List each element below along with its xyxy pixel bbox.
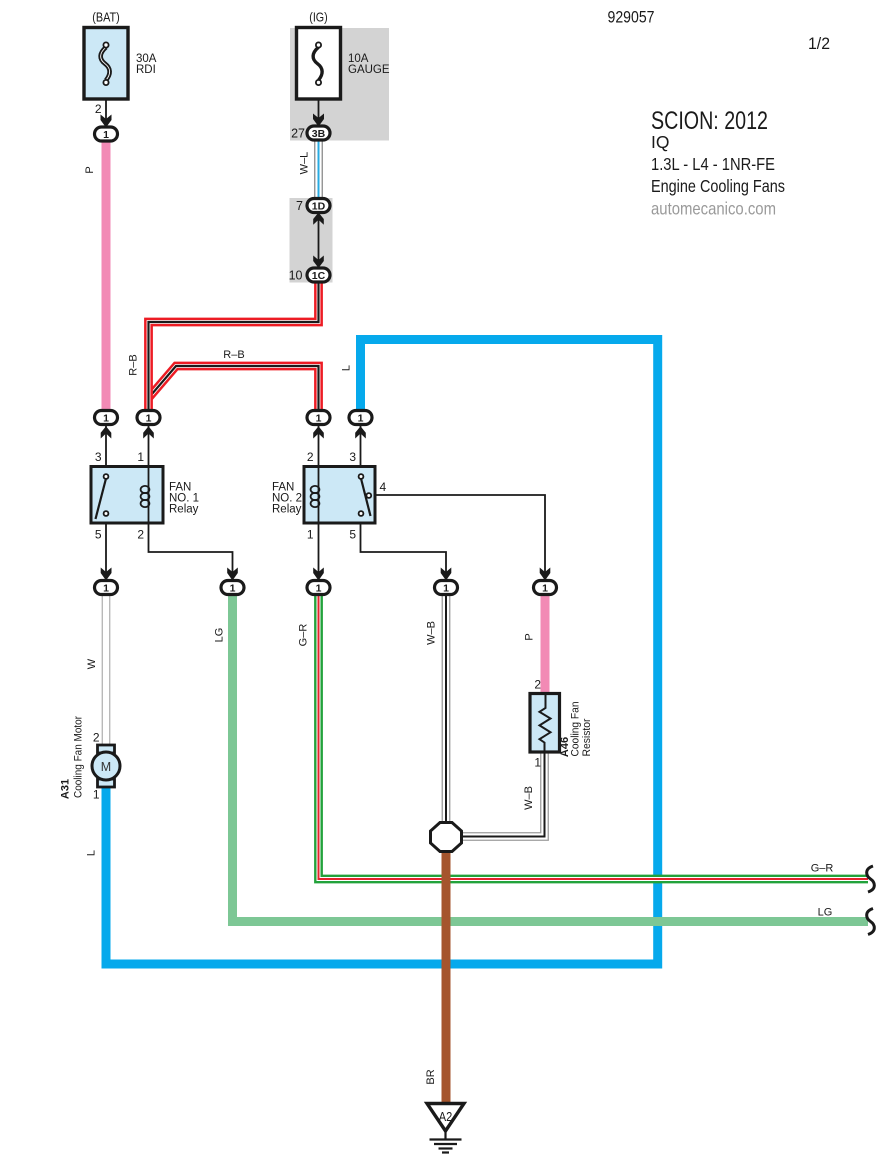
wire (thin) 1D to 1C (318, 212, 320, 268)
svg-text:2: 2 (534, 678, 541, 692)
arrow down into connector (below relay2 pin1) (313, 568, 324, 581)
label 10A GAUGE (348, 53, 390, 76)
arrow down into connector 1 (BAT) (101, 115, 112, 128)
connector 1 (below relay2 pin5) (435, 581, 458, 595)
connector 1 (below relay1 pin5) (95, 581, 118, 595)
relay2 switch (359, 474, 372, 516)
fuse RDI box (BAT) (84, 28, 128, 100)
svg-text:W: W (86, 658, 98, 669)
wire (thin) IG fuse to 3B (318, 85, 320, 127)
svg-text:2: 2 (93, 731, 100, 745)
svg-text:27: 27 (291, 127, 305, 141)
relay1 switch (96, 474, 109, 519)
connector 1 (below BAT fuse) (95, 127, 118, 141)
svg-text:P: P (524, 633, 536, 640)
break symbol (LG wire continues) (867, 909, 875, 935)
svg-text:929057: 929057 (608, 8, 655, 27)
wire W-B (relay 2 pin 5 to junction) (442, 594, 451, 823)
svg-text:R–B: R–B (128, 354, 140, 375)
ground A2 triangle (427, 1104, 464, 1132)
wire (thin) relay2 pin1 down (318, 522, 320, 581)
connector panel (junction connector 1D/1C shading) (290, 198, 333, 283)
connector 1D (307, 199, 330, 213)
fuse GAUGE box (IG) (297, 28, 341, 100)
resistor A46 box (530, 694, 560, 753)
svg-text:BR: BR (425, 1069, 437, 1084)
connector panel (IG fuse block shading) (290, 28, 389, 141)
connector 1 (above relay1 pin3) (95, 411, 118, 425)
wire (thin) relay2 pin3 (360, 424, 362, 467)
fuse RDI element (101, 42, 110, 85)
svg-text:4: 4 (380, 480, 387, 494)
connector 1 (below relay2 pin1) (307, 581, 330, 595)
svg-text:LG: LG (214, 628, 226, 643)
svg-text:10: 10 (289, 269, 303, 283)
svg-text:G–R: G–R (298, 624, 310, 647)
svg-text:automecanico.com: automecanico.com (651, 199, 776, 219)
wire (thin) relay2 pin4 right (371, 495, 545, 581)
svg-text:3: 3 (95, 450, 102, 464)
wire (thin) relay1 pin2 down (149, 522, 233, 581)
arrow down into connector (below relay2 pin5) (441, 568, 452, 581)
svg-text:1: 1 (316, 413, 322, 425)
svg-text:1: 1 (146, 413, 152, 425)
svg-text:SCION: 2012: SCION: 2012 (651, 107, 768, 135)
svg-text:1: 1 (103, 129, 109, 141)
arrow up into connector (relay1 pin3 top) (101, 426, 112, 438)
connector 1C (307, 268, 330, 282)
svg-text:P: P (84, 166, 96, 173)
svg-text:1: 1 (542, 583, 548, 595)
svg-text:3B: 3B (312, 128, 326, 140)
svg-text:W–L: W–L (299, 152, 311, 175)
break symbol (G-R wire continues) (867, 866, 875, 892)
svg-text:1: 1 (534, 756, 541, 770)
svg-text:L: L (341, 365, 353, 371)
wire R-B (1C to relay coils) branch 1 (149, 283, 319, 411)
arrow down into connector (below relay2 pin4) (540, 568, 551, 581)
svg-text:Engine Cooling Fans: Engine Cooling Fans (651, 176, 785, 196)
connector 1 (above relay2 pin3) (349, 411, 372, 425)
svg-text:L: L (86, 850, 98, 856)
arrow down into connector 3B (313, 114, 324, 127)
wire BR (brown, to ground) (442, 851, 451, 1104)
arrow up into connector (relay2 pin2 top) (313, 426, 324, 438)
wire P (pink, battery feed) (102, 141, 111, 411)
arrow down into connector (below relay1 pin5) (101, 568, 112, 581)
junction node (octagon) (431, 823, 462, 852)
wire R-B (1C to relay coils) branch 2 (149, 366, 319, 411)
svg-text:1: 1 (316, 583, 322, 595)
wire G-R (green-red) (319, 594, 869, 879)
svg-text:3: 3 (349, 450, 356, 464)
relay1 label (169, 482, 199, 516)
svg-text:1: 1 (307, 528, 314, 542)
svg-text:1.3L - L4 - 1NR-FE: 1.3L - L4 - 1NR-FE (651, 154, 775, 174)
svg-text:(IG): (IG) (309, 11, 328, 25)
svg-text:1: 1 (103, 583, 109, 595)
ground stem and bars (430, 1130, 462, 1153)
connector 3B (307, 126, 330, 140)
svg-text:A2: A2 (439, 1109, 453, 1124)
svg-text:W–B: W–B (523, 786, 535, 810)
wire (thin) relay1 pin5 down (105, 522, 107, 581)
svg-text:1: 1 (358, 413, 364, 425)
arrow up into connector (relay1 pin1 top) (143, 426, 154, 438)
wire (thin) relay2 pin5 down (361, 522, 447, 581)
svg-text:Cooling Fan: Cooling Fan (570, 702, 582, 757)
fuse GAUGE element (313, 42, 322, 85)
svg-text:1D: 1D (312, 201, 326, 213)
relay U2 FAN NO.2 box (304, 467, 375, 524)
svg-text:1: 1 (443, 583, 449, 595)
arrow up into connector 1D (313, 213, 324, 225)
relay1 coil (141, 467, 150, 524)
svg-text:G–R: G–R (811, 863, 834, 875)
svg-text:1: 1 (93, 788, 100, 802)
relay2 pin labels (307, 450, 387, 542)
svg-text:(BAT): (BAT) (92, 11, 120, 25)
relay1 pin labels (95, 450, 145, 542)
label 30A RDI (136, 53, 157, 76)
svg-text:2: 2 (95, 102, 102, 116)
wire L (blue) main loop (102, 340, 658, 965)
svg-text:Relay: Relay (169, 504, 199, 516)
svg-text:GAUGE: GAUGE (348, 64, 390, 76)
wire W (white, motor) (102, 594, 111, 747)
wire (thin) relay2 pin2 (318, 424, 320, 467)
wire LG (light green) (233, 594, 869, 922)
svg-text:1/2: 1/2 (808, 34, 830, 53)
svg-text:7: 7 (296, 199, 303, 213)
svg-text:M: M (101, 760, 111, 774)
wire L (blue) motor branch (102, 781, 111, 969)
wire (thin) relay1 pin3 (105, 424, 107, 467)
connector 1 (below relay2 pin4) (534, 581, 557, 595)
svg-text:5: 5 (349, 528, 356, 542)
svg-text:Cooling Fan Motor: Cooling Fan Motor (73, 716, 85, 798)
svg-text:LG: LG (818, 907, 833, 919)
wire W-L (white-blue) (314, 140, 323, 199)
svg-text:1C: 1C (312, 270, 326, 282)
connector 1 (below relay1 pin2) (221, 581, 244, 595)
svg-text:1: 1 (103, 413, 109, 425)
svg-text:R–B: R–B (223, 349, 244, 361)
motor A31 body (92, 752, 120, 780)
arrow up into connector (relay2 pin3 top) (355, 426, 366, 438)
arrow down into connector 1C (313, 256, 324, 269)
svg-text:5: 5 (95, 528, 102, 542)
wire (thin) relay1 pin1 (148, 424, 150, 467)
svg-text:IQ: IQ (651, 132, 669, 152)
svg-text:Resistor: Resistor (581, 718, 593, 756)
svg-text:W–B: W–B (426, 621, 438, 645)
svg-text:RDI: RDI (136, 64, 156, 76)
relay U1 FAN NO.1 box (91, 467, 163, 524)
connector 1 (above relay2 pin2) (307, 411, 330, 425)
wire (thin) BAT fuse to connector (105, 98, 107, 128)
svg-text:Relay: Relay (272, 504, 302, 516)
svg-text:1: 1 (137, 450, 144, 464)
svg-text:2: 2 (137, 528, 144, 542)
arrow down into connector (below relay1 pin2) (227, 568, 238, 581)
wire P (pink, to resistor) (541, 594, 550, 694)
relay2 coil (311, 467, 320, 524)
svg-text:1: 1 (230, 583, 236, 595)
svg-text:A31: A31 (60, 779, 72, 799)
svg-text:2: 2 (307, 450, 314, 464)
resistor A46 zigzag (540, 694, 551, 753)
relay2 label (272, 482, 302, 516)
connector 1 (above relay1 pin1) (137, 411, 160, 425)
wire W-B (resistor to junction) (458, 752, 545, 837)
motor A31 terminals (98, 745, 115, 753)
